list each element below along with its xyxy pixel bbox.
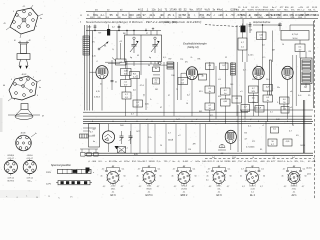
svg-text:24,: 24, bbox=[250, 17, 253, 19]
svg-text:4,7: 4,7 bbox=[125, 94, 128, 96]
svg-text:4,7: 4,7 bbox=[208, 168, 211, 170]
svg-text:4,7: 4,7 bbox=[10, 167, 12, 169]
svg-text:,7%7: ,7%7 bbox=[237, 161, 243, 163]
svg-text:4,05: 4,05 bbox=[286, 141, 290, 143]
svg-text:0,1: 0,1 bbox=[93, 135, 96, 137]
svg-text:4,7: 4,7 bbox=[227, 186, 230, 188]
svg-text:0,1 4n: 0,1 4n bbox=[248, 54, 253, 56]
svg-text:4-12: 4-12 bbox=[138, 8, 144, 12]
svg-text:4,2: 4,2 bbox=[284, 186, 287, 188]
svg-text:x.5: x.5 bbox=[240, 91, 243, 93]
svg-text:4g: 4g bbox=[130, 57, 132, 59]
svg-text:50: 50 bbox=[195, 175, 197, 177]
svg-text:767-: 767- bbox=[284, 10, 289, 12]
svg-text:(Gültig mit): (Gültig mit) bbox=[187, 46, 198, 49]
svg-text:85,: 85, bbox=[260, 149, 263, 151]
svg-text:0,1: 0,1 bbox=[228, 168, 231, 170]
svg-text:0947,,: 0947,, bbox=[217, 185, 222, 187]
svg-text:94x.-,: 94x.-, bbox=[28, 181, 33, 183]
svg-text:4,7: 4,7 bbox=[173, 168, 176, 170]
svg-text:/73: /73 bbox=[231, 13, 235, 17]
svg-text:33296: 33296 bbox=[224, 161, 231, 163]
svg-text:EF 9: EF 9 bbox=[216, 194, 222, 197]
svg-text:4,7 (100m: 4,7 (100m bbox=[246, 146, 255, 148]
svg-text:0,1: 0,1 bbox=[208, 88, 211, 90]
svg-text:%x,: %x, bbox=[189, 8, 194, 12]
svg-text:-,%: -,% bbox=[264, 13, 269, 17]
svg-text:12x: 12x bbox=[152, 8, 157, 12]
svg-text:4%: 4% bbox=[185, 61, 188, 63]
svg-text:50 4n: 50 4n bbox=[293, 38, 298, 40]
svg-text:./54: ./54 bbox=[308, 51, 311, 53]
svg-text:,-: ,- bbox=[236, 14, 238, 17]
svg-text:,.%: ,.% bbox=[272, 157, 275, 159]
svg-text:x5: x5 bbox=[290, 107, 292, 109]
svg-text:23: 23 bbox=[292, 125, 294, 127]
svg-text:4n: 4n bbox=[260, 38, 262, 40]
svg-text:0,01: 0,01 bbox=[259, 34, 263, 36]
svg-text:4,7: 4,7 bbox=[252, 88, 255, 90]
svg-text:4,7: 4,7 bbox=[181, 80, 184, 82]
svg-text:4,05: 4,05 bbox=[145, 104, 149, 106]
svg-text:4: 4 bbox=[13, 11, 14, 13]
svg-text:7/%: 7/% bbox=[311, 13, 316, 17]
svg-text:%687: %687 bbox=[300, 145, 305, 147]
svg-text:2: 2 bbox=[33, 10, 34, 12]
svg-text:2-/-: 2-/- bbox=[101, 13, 105, 17]
svg-text:62248.4: 62248.4 bbox=[8, 155, 15, 157]
svg-text:803: 803 bbox=[199, 111, 202, 113]
svg-text:%/7/: %/7/ bbox=[136, 131, 140, 133]
svg-text:4 1: 4 1 bbox=[23, 6, 26, 8]
svg-text:4,0: 4,0 bbox=[283, 99, 286, 101]
svg-text:8.462: 8.462 bbox=[183, 161, 189, 163]
svg-text:4,2: 4,2 bbox=[206, 171, 209, 173]
svg-text:2/8-6: 2/8-6 bbox=[298, 17, 302, 19]
svg-text:4x: 4x bbox=[155, 68, 157, 70]
svg-text:0,1: 0,1 bbox=[124, 82, 127, 84]
svg-text:/500: /500 bbox=[120, 125, 124, 127]
svg-text:0,5: 0,5 bbox=[266, 97, 269, 99]
svg-text:%6,: %6, bbox=[308, 10, 312, 12]
svg-text:49: 49 bbox=[137, 55, 139, 57]
svg-text:57: 57 bbox=[146, 33, 148, 35]
svg-text:4n: 4n bbox=[137, 175, 139, 177]
svg-text:996: 996 bbox=[98, 17, 101, 19]
svg-text:19-.,: 19-., bbox=[300, 161, 305, 163]
svg-text:Empfindlichkeitsregler: Empfindlichkeitsregler bbox=[183, 43, 207, 46]
svg-text:/08.: /08. bbox=[187, 17, 191, 19]
svg-text:4s: 4s bbox=[39, 87, 41, 89]
svg-text:4,7: 4,7 bbox=[293, 166, 296, 168]
svg-text:50: 50 bbox=[305, 175, 307, 177]
svg-text:4n: 4n bbox=[224, 93, 226, 95]
svg-text:1862,: 1862, bbox=[111, 188, 116, 190]
svg-text:325,: 325, bbox=[294, 161, 299, 163]
svg-text:8/48: 8/48 bbox=[276, 119, 280, 121]
svg-text:4,7: 4,7 bbox=[258, 107, 261, 109]
svg-text:0,1: 0,1 bbox=[299, 46, 302, 48]
svg-text:50: 50 bbox=[230, 175, 232, 177]
svg-text:0x7: 0x7 bbox=[292, 157, 295, 159]
svg-text:4,2: 4,2 bbox=[187, 94, 190, 96]
svg-text:57-6: 57-6 bbox=[140, 85, 144, 87]
svg-text:41: 41 bbox=[4, 23, 6, 25]
svg-text:5-: 5- bbox=[290, 161, 292, 163]
svg-text:40: 40 bbox=[201, 76, 203, 78]
svg-text:4,7/0,3: 4,7/0,3 bbox=[94, 96, 100, 98]
svg-text:47: 47 bbox=[42, 116, 44, 118]
svg-text:50: 50 bbox=[263, 175, 265, 177]
svg-text:/.26-: /.26- bbox=[217, 188, 221, 190]
svg-text:.8,18,: .8,18, bbox=[147, 185, 152, 187]
svg-text:4n: 4n bbox=[282, 175, 284, 177]
svg-text:572: 572 bbox=[252, 141, 255, 143]
svg-text:4,7: 4,7 bbox=[241, 42, 244, 44]
svg-text:,2: ,2 bbox=[250, 119, 252, 121]
svg-text:4,2: 4,2 bbox=[103, 186, 106, 188]
svg-text:./6: ./6 bbox=[252, 157, 254, 159]
svg-text:6%.: 6%. bbox=[291, 10, 295, 12]
svg-text:4,2: 4,2 bbox=[242, 186, 245, 188]
svg-text:-/: -/ bbox=[213, 13, 215, 17]
svg-text:160: 160 bbox=[230, 84, 233, 86]
svg-text:4,7: 4,7 bbox=[136, 105, 139, 107]
svg-text:4,7: 4,7 bbox=[138, 168, 141, 170]
svg-text:50: 50 bbox=[283, 102, 285, 104]
svg-text:4.: 4. bbox=[226, 13, 228, 17]
svg-text:4,7: 4,7 bbox=[283, 168, 286, 170]
svg-text:40 48: 40 48 bbox=[21, 133, 26, 135]
svg-text:.9757: .9757 bbox=[196, 8, 203, 12]
svg-text:0,1: 0,1 bbox=[261, 168, 264, 170]
svg-text:35526: 35526 bbox=[149, 161, 156, 163]
svg-text:x36-: x36- bbox=[312, 161, 317, 163]
svg-text:0,1: 0,1 bbox=[241, 46, 244, 48]
svg-text:EF 9: EF 9 bbox=[110, 194, 116, 197]
svg-text:4n: 4n bbox=[207, 175, 209, 177]
svg-text:791/: 791/ bbox=[178, 17, 182, 19]
svg-text:9x2: 9x2 bbox=[212, 157, 215, 159]
svg-text:0,1: 0,1 bbox=[222, 65, 225, 67]
svg-text:(4,7): (4,7) bbox=[307, 173, 311, 175]
svg-text:-360: -360 bbox=[92, 161, 97, 163]
svg-text:4,7: 4,7 bbox=[157, 186, 160, 188]
svg-text:25-8: 25-8 bbox=[266, 79, 270, 81]
svg-text:621x/: 621x/ bbox=[124, 161, 130, 163]
svg-text:14: 14 bbox=[282, 44, 284, 46]
svg-text:1,: 1, bbox=[173, 13, 175, 17]
svg-text:-8,: -8, bbox=[177, 161, 180, 163]
svg-text:86/: 86/ bbox=[207, 13, 211, 17]
svg-text:4,7: 4,7 bbox=[299, 50, 302, 52]
svg-text:4,7: 4,7 bbox=[271, 144, 274, 146]
svg-text:4,7: 4,7 bbox=[244, 107, 247, 109]
svg-text:x.2: x.2 bbox=[178, 135, 181, 137]
svg-text:x26: x26 bbox=[218, 13, 223, 17]
svg-text:(Gültig 49.1): (Gültig 49.1) bbox=[163, 20, 177, 24]
svg-text:4,7: 4,7 bbox=[148, 166, 151, 168]
svg-text:Spannungswähler: Spannungswähler bbox=[51, 164, 71, 167]
svg-text:86/: 86/ bbox=[123, 33, 126, 35]
svg-text:1%6: 1%6 bbox=[232, 157, 236, 159]
svg-text:4,7: 4,7 bbox=[243, 69, 246, 71]
svg-text:4,2: 4,2 bbox=[120, 41, 123, 43]
svg-text:220V: 220V bbox=[46, 172, 52, 174]
svg-text:.32: .32 bbox=[183, 8, 187, 12]
svg-text:0,1: 0,1 bbox=[122, 168, 125, 170]
svg-text:773: 773 bbox=[180, 59, 183, 61]
svg-text:/5%-: /5%- bbox=[148, 137, 152, 139]
svg-text:4n: 4n bbox=[40, 18, 42, 20]
svg-text:4n: 4n bbox=[115, 82, 117, 84]
svg-text:4,15: 4,15 bbox=[96, 91, 100, 93]
svg-text:-609: -609 bbox=[260, 161, 265, 163]
svg-text:36: 36 bbox=[36, 197, 38, 199]
svg-text:4,2: 4,2 bbox=[139, 186, 142, 188]
svg-text:0,1: 0,1 bbox=[158, 168, 161, 170]
svg-text:50: 50 bbox=[124, 175, 126, 177]
svg-text:0,5: 0,5 bbox=[125, 97, 128, 99]
svg-text:114: 114 bbox=[188, 149, 191, 151]
svg-text:6: 6 bbox=[37, 95, 38, 97]
svg-text:4n: 4n bbox=[240, 175, 242, 177]
svg-text:,5x32: ,5x32 bbox=[250, 188, 254, 190]
svg-text:127V: 127V bbox=[46, 183, 52, 185]
svg-text:57x21%: 57x21% bbox=[249, 185, 256, 187]
svg-text:%33%: %33% bbox=[247, 10, 253, 12]
svg-text:EBF 2: EBF 2 bbox=[181, 194, 188, 197]
svg-text:4n7: 4n7 bbox=[124, 85, 127, 87]
svg-text:-3: -3 bbox=[16, 197, 18, 199]
svg-text:1x40: 1x40 bbox=[124, 71, 128, 73]
svg-text:4,6: 4,6 bbox=[250, 29, 253, 31]
svg-text:94: 94 bbox=[148, 65, 150, 67]
svg-text:32-: 32- bbox=[308, 95, 311, 97]
svg-text:24: 24 bbox=[160, 145, 162, 147]
svg-text:4%: 4% bbox=[92, 42, 95, 44]
svg-text:4,7: 4,7 bbox=[241, 168, 244, 170]
svg-text:///3: ///3 bbox=[277, 17, 280, 19]
svg-text:47: 47 bbox=[160, 107, 162, 109]
svg-text:%2x: %2x bbox=[252, 102, 256, 104]
svg-text:4,19 4,2: 4,19 4,2 bbox=[8, 177, 15, 179]
svg-text:41./x: 41./x bbox=[149, 13, 155, 17]
svg-text:4,7: 4,7 bbox=[192, 186, 195, 188]
svg-text:00: 00 bbox=[119, 17, 121, 19]
svg-text:0,1: 0,1 bbox=[270, 111, 273, 113]
svg-text:4,7: 4,7 bbox=[289, 130, 292, 132]
svg-text:92%: 92% bbox=[290, 17, 294, 19]
svg-text:-2.5: -2.5 bbox=[262, 57, 265, 59]
svg-text:4,7: 4,7 bbox=[218, 166, 221, 168]
svg-text:29: 29 bbox=[48, 196, 50, 198]
svg-text:4,4: 4,4 bbox=[208, 65, 211, 67]
svg-text:4,1: 4,1 bbox=[235, 98, 238, 100]
svg-text:1,0: 1,0 bbox=[262, 44, 265, 46]
svg-text:4,7: 4,7 bbox=[29, 167, 31, 169]
svg-text:2x1: 2x1 bbox=[158, 8, 163, 12]
svg-text:0,1: 0,1 bbox=[206, 179, 209, 181]
svg-text:8: 8 bbox=[15, 30, 16, 32]
svg-text:2: 2 bbox=[33, 77, 34, 79]
svg-text:55: 55 bbox=[110, 13, 113, 17]
svg-text:416: 416 bbox=[218, 96, 221, 98]
svg-text:4,7: 4,7 bbox=[121, 186, 124, 188]
svg-text:16: 16 bbox=[186, 103, 188, 105]
svg-text:4,7: 4,7 bbox=[302, 186, 305, 188]
svg-text:%,/9: %,/9 bbox=[204, 8, 210, 12]
svg-text:(4,05): (4,05) bbox=[307, 167, 312, 169]
svg-text:Antennenbuchse: Antennenbuchse bbox=[252, 21, 271, 24]
svg-text:9x97: 9x97 bbox=[176, 119, 180, 121]
svg-text:4,2: 4,2 bbox=[174, 186, 177, 188]
svg-text:0x-: 0x- bbox=[172, 161, 175, 163]
svg-text:87: 87 bbox=[305, 13, 308, 17]
svg-text:4%x1: 4%x1 bbox=[217, 8, 224, 12]
svg-text:.3-: .3- bbox=[282, 13, 285, 17]
svg-text:739: 739 bbox=[98, 32, 101, 34]
svg-text:611,: 611, bbox=[210, 115, 214, 117]
svg-text:4,7: 4,7 bbox=[245, 138, 248, 140]
svg-text:89020: 89020 bbox=[147, 188, 152, 190]
svg-text:4,19 4,2: 4,19 4,2 bbox=[27, 177, 34, 179]
svg-text:8%: 8% bbox=[297, 10, 300, 12]
svg-text:6--6: 6--6 bbox=[298, 95, 301, 97]
svg-text:-050%/-: -050%/- bbox=[27, 155, 34, 157]
svg-text:-%: -% bbox=[190, 57, 193, 59]
svg-text:9%1: 9%1 bbox=[132, 161, 137, 163]
svg-text:8.2-: 8.2- bbox=[98, 161, 102, 163]
svg-text:4g: 4g bbox=[149, 57, 151, 59]
svg-text:83.7%%: 83.7%% bbox=[7, 181, 14, 183]
svg-text:0,1: 0,1 bbox=[155, 82, 158, 84]
svg-text:4n: 4n bbox=[172, 175, 174, 177]
svg-text:8: 8 bbox=[14, 99, 15, 101]
svg-text:4,7 0,1: 4,7 0,1 bbox=[292, 34, 299, 36]
svg-text:/130: /130 bbox=[171, 75, 175, 77]
svg-text:40%1: 40%1 bbox=[259, 17, 264, 19]
svg-text:/574x: /574x bbox=[292, 188, 296, 190]
svg-text:4-: 4- bbox=[284, 161, 286, 163]
svg-text:x%4%5: x%4%5 bbox=[181, 188, 187, 190]
svg-text:6: 6 bbox=[36, 26, 37, 28]
svg-text:60n: 60n bbox=[124, 74, 127, 76]
svg-text:4,7: 4,7 bbox=[304, 87, 307, 89]
svg-text:9261: 9261 bbox=[252, 79, 256, 81]
svg-text:358: 358 bbox=[90, 17, 93, 19]
svg-text:4,7: 4,7 bbox=[251, 166, 254, 168]
svg-text:8.0: 8.0 bbox=[106, 17, 109, 19]
svg-text:-4: -4 bbox=[262, 125, 264, 127]
svg-text:52: 52 bbox=[225, 57, 227, 59]
svg-text:4/40: 4/40 bbox=[88, 27, 92, 29]
svg-text:17149: 17149 bbox=[169, 8, 177, 12]
svg-text:6,2-: 6,2- bbox=[163, 57, 167, 59]
svg-text:4,7: 4,7 bbox=[90, 131, 93, 133]
svg-text:4%: 4% bbox=[296, 135, 299, 137]
svg-text:4,7: 4,7 bbox=[260, 186, 263, 188]
svg-text:42: 42 bbox=[29, 40, 31, 42]
svg-text:88-7: 88-7 bbox=[142, 161, 147, 163]
svg-text:8%50: 8%50 bbox=[263, 10, 269, 12]
svg-text:4092: 4092 bbox=[270, 10, 276, 12]
svg-text:99x: 99x bbox=[277, 87, 280, 89]
svg-text:4,05: 4,05 bbox=[223, 101, 227, 103]
svg-text:97: 97 bbox=[168, 95, 170, 97]
svg-text:4,15: 4,15 bbox=[92, 55, 96, 57]
svg-text:4,17 4,7: 4,17 4,7 bbox=[8, 158, 15, 160]
svg-text:4,17 4,7: 4,17 4,7 bbox=[27, 158, 34, 160]
svg-text:4,7: 4,7 bbox=[131, 113, 134, 115]
svg-text:4,2: 4,2 bbox=[93, 129, 96, 131]
svg-text:-.1: -.1 bbox=[148, 17, 150, 19]
svg-text:0,1: 0,1 bbox=[181, 83, 184, 85]
svg-text:4,1: 4,1 bbox=[248, 125, 251, 127]
svg-text:4n: 4n bbox=[93, 141, 95, 143]
svg-text:.9: .9 bbox=[256, 65, 258, 67]
svg-text:4,25: 4,25 bbox=[266, 86, 270, 88]
svg-text:4: 4 bbox=[11, 79, 12, 81]
svg-text:.7%1,: .7%1, bbox=[252, 161, 258, 163]
svg-text:4,2: 4,2 bbox=[112, 26, 115, 28]
svg-text:0%: 0% bbox=[70, 197, 73, 199]
svg-text:-4: -4 bbox=[246, 111, 248, 113]
svg-text:ECH 4: ECH 4 bbox=[145, 194, 153, 197]
svg-text:28: 28 bbox=[159, 17, 161, 19]
svg-text:4,2: 4,2 bbox=[209, 186, 212, 188]
svg-text:0,1: 0,1 bbox=[303, 168, 306, 170]
svg-text:%.4: %.4 bbox=[122, 13, 127, 17]
svg-text:-2: -2 bbox=[96, 61, 98, 63]
svg-text:Ech: Ech bbox=[133, 74, 136, 76]
svg-text:4,7: 4,7 bbox=[183, 166, 186, 168]
svg-text:4,0: 4,0 bbox=[133, 90, 136, 92]
svg-text:5,0: 5,0 bbox=[273, 129, 276, 131]
svg-text:50: 50 bbox=[271, 141, 273, 143]
svg-text:4H: 4H bbox=[193, 143, 196, 145]
svg-text:4,7: 4,7 bbox=[168, 132, 171, 134]
svg-text:8263x%: 8263x% bbox=[291, 185, 298, 187]
svg-text:6%: 6% bbox=[269, 17, 272, 19]
svg-text:%9: %9 bbox=[240, 17, 243, 19]
svg-text:4,7: 4,7 bbox=[112, 166, 115, 168]
svg-text:EL 2: EL 2 bbox=[250, 194, 255, 197]
svg-text:4n: 4n bbox=[267, 100, 269, 102]
svg-text:50: 50 bbox=[160, 175, 162, 177]
svg-text:4n: 4n bbox=[101, 175, 103, 177]
svg-text:97,: 97, bbox=[143, 13, 147, 17]
svg-text:40 42: 40 42 bbox=[22, 74, 27, 76]
svg-text:4M: 4M bbox=[272, 49, 275, 51]
svg-text:4,7: 4,7 bbox=[208, 105, 211, 107]
svg-text:AZ 1: AZ 1 bbox=[291, 194, 297, 197]
svg-text:44: 44 bbox=[3, 85, 5, 87]
svg-text:0,1: 0,1 bbox=[193, 168, 196, 170]
svg-text:0,1: 0,1 bbox=[284, 108, 287, 110]
svg-text:88.: 88. bbox=[104, 45, 107, 47]
svg-text:4n: 4n bbox=[209, 91, 211, 93]
svg-text:/,: /, bbox=[194, 13, 196, 17]
svg-text:0,1: 0,1 bbox=[136, 102, 139, 104]
